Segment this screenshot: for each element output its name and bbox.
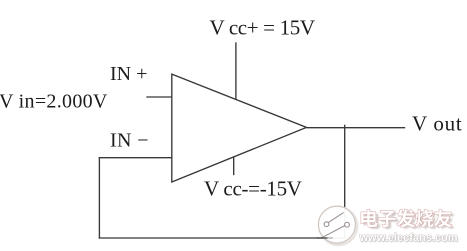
wire Vcc- supply stub xyxy=(233,157,235,175)
svg-text:V cc-=-15V: V cc-=-15V xyxy=(204,177,302,201)
op-amp U1 triangle xyxy=(172,74,307,182)
svg-text:www.elecfans.com: www.elecfans.com xyxy=(359,232,458,244)
wire IN- input xyxy=(99,157,172,159)
watermark brand text shadow xyxy=(364,211,455,229)
watermark logo diagonal from left node xyxy=(328,213,343,223)
wire feedback bottom horizontal xyxy=(99,237,345,239)
wire IN+ input xyxy=(146,96,172,98)
wire output xyxy=(307,127,406,129)
watermark background panel xyxy=(352,199,467,247)
svg-text:IN +: IN + xyxy=(110,63,147,85)
svg-text:V cc+ = 15V: V cc+ = 15V xyxy=(210,16,315,40)
svg-text:IN −: IN − xyxy=(110,130,149,152)
wire feedback bottom over watermark xyxy=(316,237,328,239)
wire feedback left vertical xyxy=(98,157,100,239)
svg-text:V in=2.000V: V in=2.000V xyxy=(0,91,108,113)
watermark logo circle shadow xyxy=(320,207,357,244)
watermark logo right node xyxy=(345,222,350,227)
watermark logo circle xyxy=(318,206,355,243)
wire Vcc+ supply stub xyxy=(235,42,237,99)
watermark brand text xyxy=(361,209,452,227)
wire feedback right vertical xyxy=(344,125,346,239)
watermark logo diagonal to right node xyxy=(321,226,345,239)
watermark logo left node xyxy=(324,222,329,227)
svg-text:V out: V out xyxy=(412,111,462,135)
